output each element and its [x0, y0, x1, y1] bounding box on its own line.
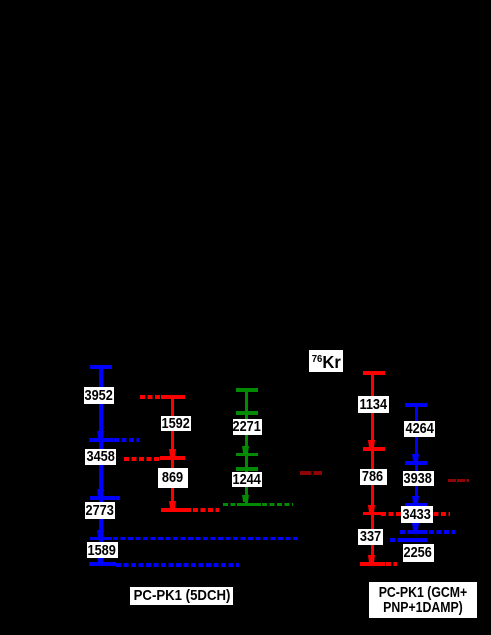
right blue level 2: [405, 461, 427, 465]
energy label 3938: [403, 471, 434, 486]
left blue band vertical transition line: [99, 367, 103, 563]
energy label 2773: [85, 502, 116, 519]
right blue level 4 dashed extension left: [400, 530, 410, 534]
energy label 3433: [401, 506, 433, 523]
energy label 786: [360, 469, 387, 486]
green band vertical transition line: [245, 390, 249, 503]
energy label 869: [158, 468, 189, 488]
right red level 3 dashed extension right: [381, 512, 451, 515]
dark red dashed level (middle): [300, 471, 323, 475]
energy label 1592: [161, 416, 191, 432]
model label PC-PK1 (GCM+PNP+1DAMP): [369, 582, 477, 618]
left blue level 5 long dashed line right: [116, 563, 239, 567]
left red level 3 dashed extension right: [193, 508, 219, 512]
left red band vertical transition line: [171, 396, 175, 509]
left blue level 5 (bottom): [89, 562, 116, 566]
right red band vertical transition line: [371, 372, 375, 562]
green arrowhead onto level 5: [242, 495, 249, 502]
left red arrowhead onto level 2: [169, 449, 176, 456]
green level 5 dashed extension right: [262, 503, 293, 507]
right blue level 4 dashed extension right: [429, 530, 456, 534]
green level 3: [236, 453, 258, 457]
dark red dashed level (far right): [448, 479, 470, 482]
left blue arrowhead onto level 4: [97, 530, 104, 537]
energy label 1244: [232, 472, 262, 487]
green level 4: [236, 467, 258, 471]
right blue band vertical transition line: [415, 404, 419, 531]
green level 2: [236, 411, 258, 415]
nuclide label 76Kr: [309, 350, 343, 372]
right blue level 5 dashed extension left: [390, 538, 402, 542]
left blue arrowhead onto level 5: [97, 555, 104, 562]
right blue level 4: [408, 530, 427, 534]
right red level 1 (top): [363, 371, 386, 375]
right red arrowhead onto level 4: [368, 555, 375, 562]
right red level 4 dashed extension right: [386, 562, 397, 566]
energy label 2256: [403, 544, 434, 562]
right red arrowhead onto level 2: [368, 440, 375, 447]
right red level 2: [363, 447, 385, 451]
left blue level 2: [89, 438, 113, 442]
left blue level 4 long dashed line right: [113, 537, 299, 541]
green arrowhead onto level 3: [242, 446, 249, 453]
right blue arrowhead onto level 3: [412, 496, 419, 503]
left blue arrowhead onto level 3: [97, 489, 104, 496]
right blue arrowhead onto level 4: [412, 523, 419, 530]
right blue level 1 (top): [405, 403, 427, 407]
energy label 2271: [233, 419, 262, 435]
left red arrowhead onto level 3: [169, 501, 176, 508]
right red level 4 (bottom): [360, 562, 386, 566]
left blue level 2 dashed extension right: [114, 438, 140, 442]
model label PC-PK1 (5DCH): [130, 587, 233, 605]
right red arrowhead onto level 3: [368, 505, 375, 512]
left blue level 3 dash stub right: [116, 496, 120, 500]
left blue arrowhead onto level 2: [97, 431, 104, 438]
left red level 3 (bottom): [161, 508, 191, 512]
energy label 4264: [404, 421, 436, 438]
left red level 1 (top): [161, 395, 185, 399]
right blue level 3: [405, 503, 427, 506]
green level 5 (bottom): [237, 503, 261, 507]
green level 5 dashed extension left: [223, 503, 237, 507]
left blue level 4: [90, 537, 113, 541]
energy label 1589: [87, 542, 118, 558]
green level 1 (top): [236, 388, 258, 392]
right red level 3: [363, 512, 381, 515]
energy label 3952: [84, 387, 114, 404]
left blue level 3: [90, 496, 115, 500]
left blue level 1 (top): [90, 365, 113, 369]
energy label 3458: [85, 449, 117, 466]
left red level 2 dashed extension left: [124, 457, 160, 461]
left red level 1 dashed extension left: [140, 395, 161, 399]
right blue arrowhead onto level 2: [412, 454, 419, 461]
right blue level 5: [402, 538, 428, 542]
energy label 337: [358, 529, 384, 546]
left red level 2: [160, 456, 185, 460]
energy label 1134: [358, 396, 390, 413]
